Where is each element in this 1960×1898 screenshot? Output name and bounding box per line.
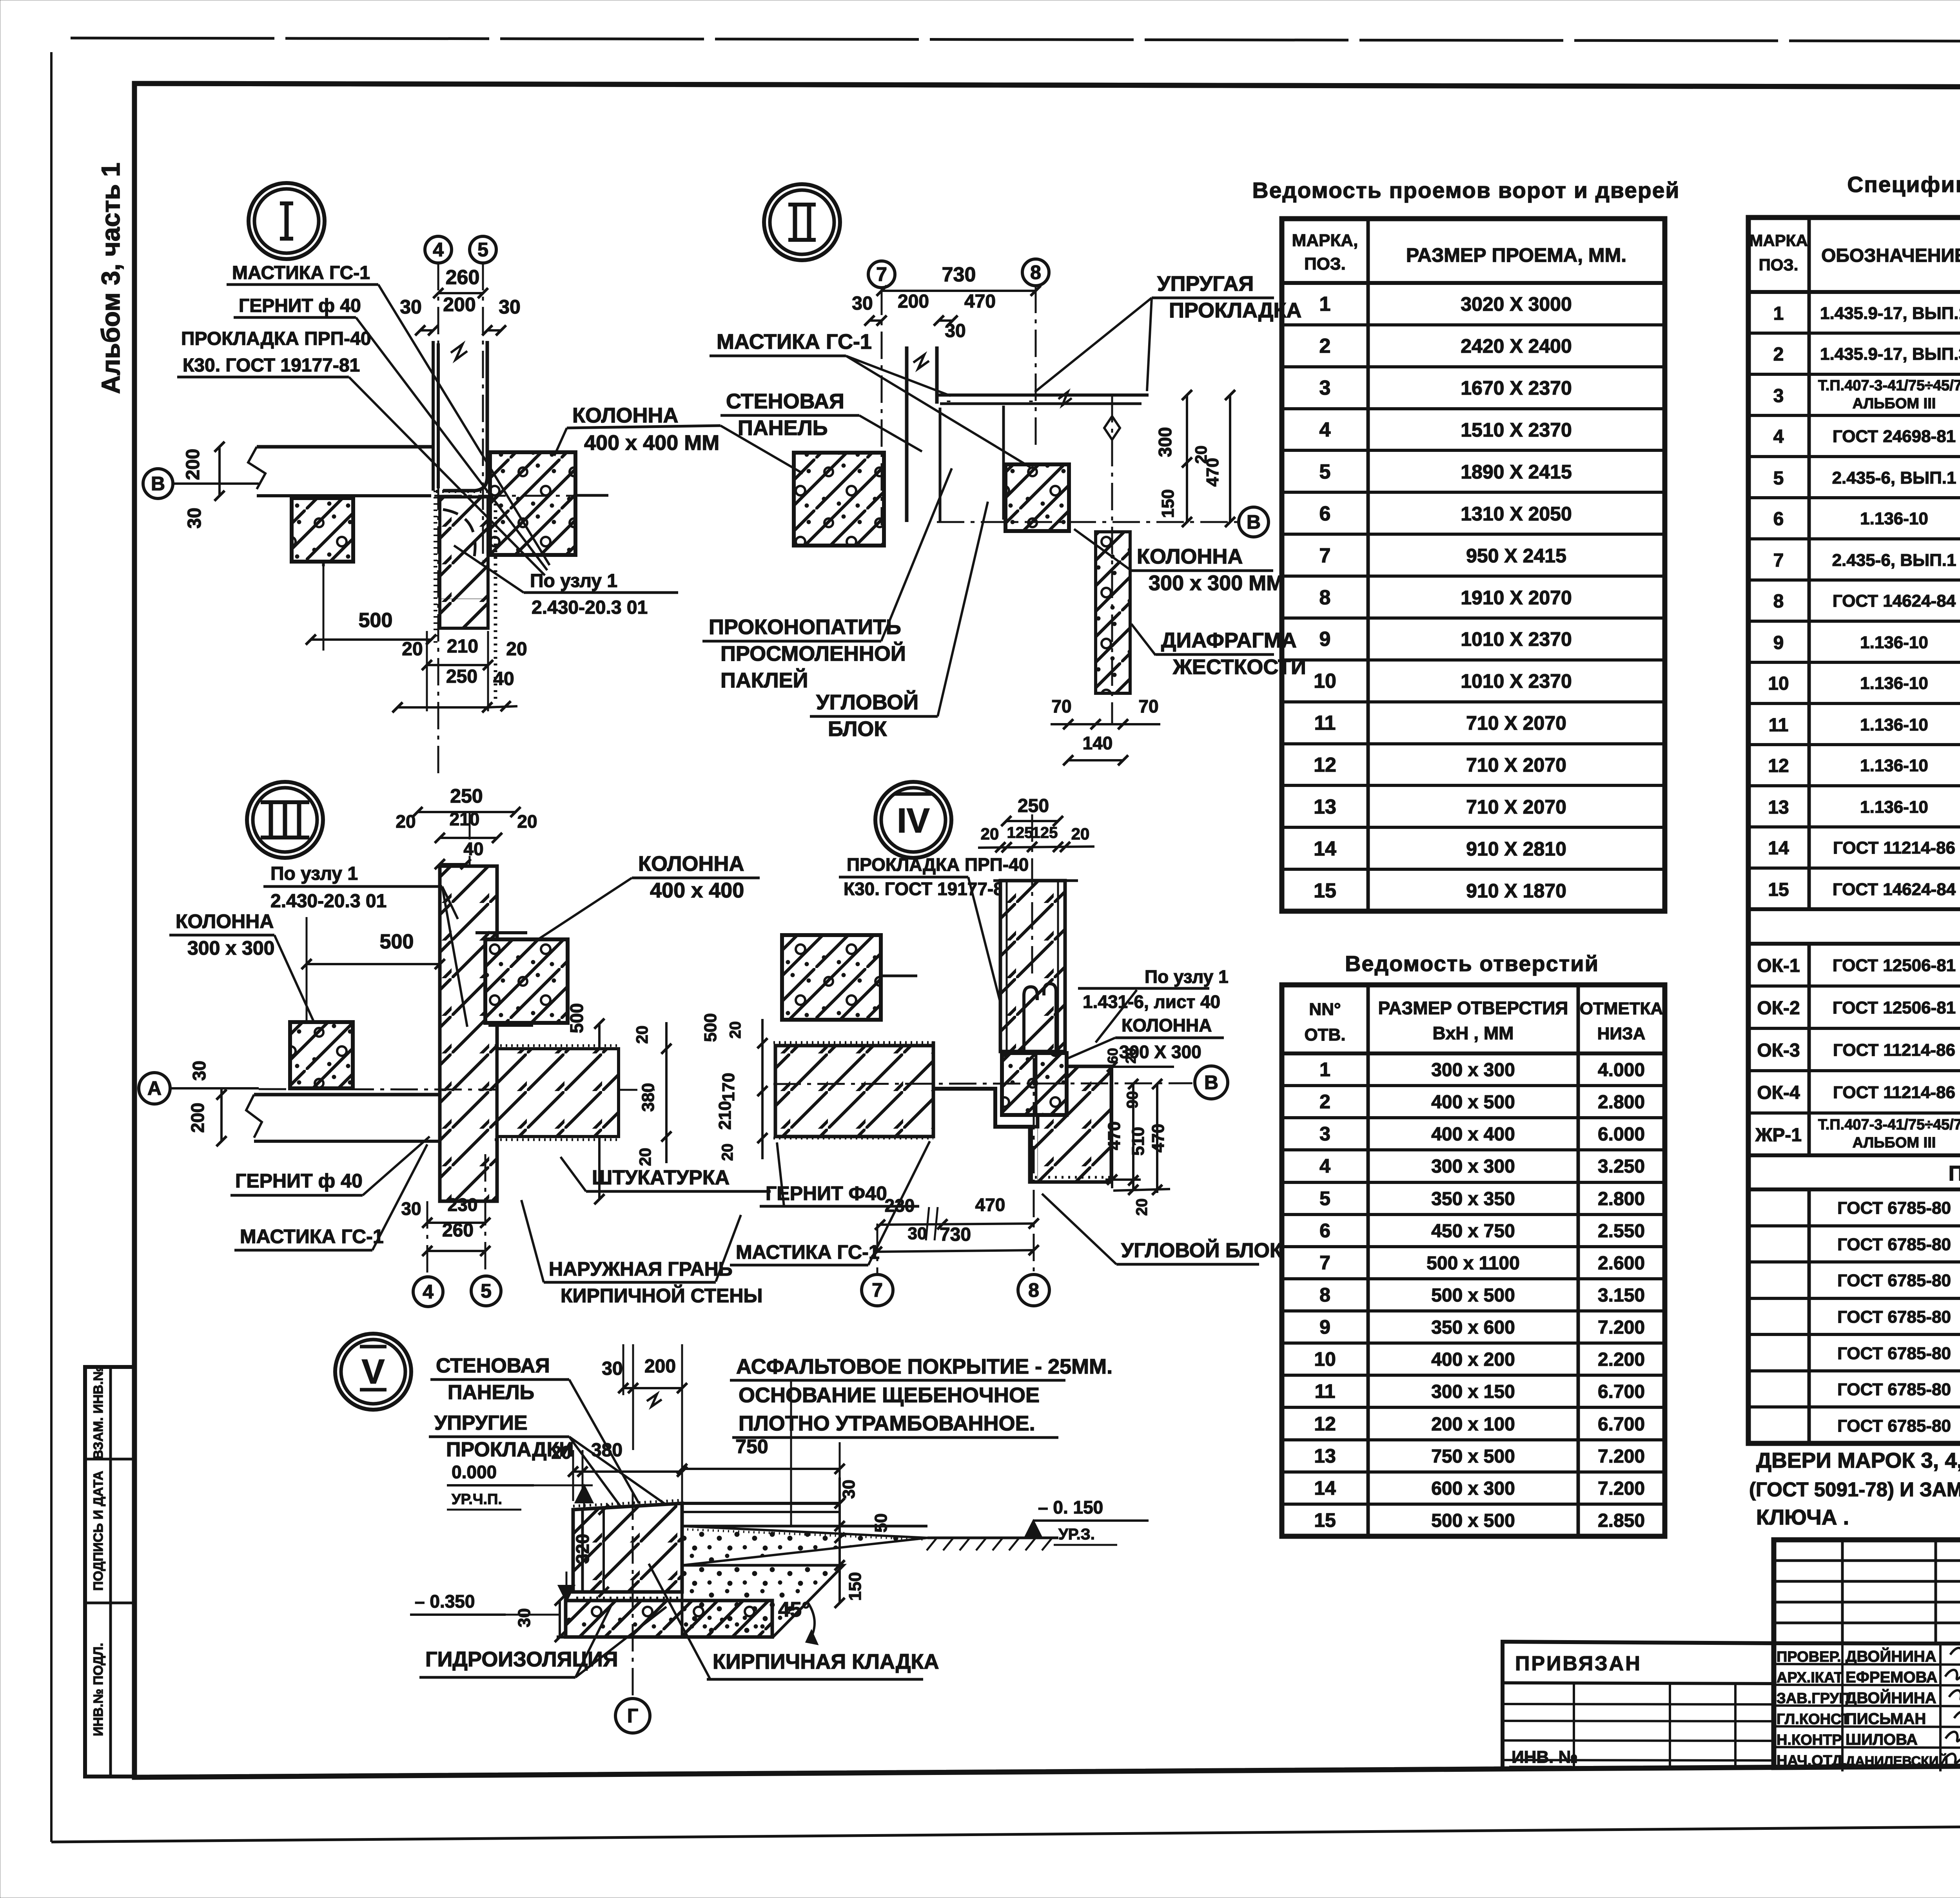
svg-text:20: 20 [402,639,423,660]
svg-text:13: 13 [1314,796,1336,818]
svg-text:15: 15 [1768,879,1789,900]
svg-text:210: 210 [447,636,478,657]
detail V circle [335,1334,411,1410]
svg-text:ЖЕСТКОСТИ: ЖЕСТКОСТИ [1172,655,1306,679]
svg-text:ПАНЕЛЬ: ПАНЕЛЬ [738,416,828,440]
svg-text:НИЗА: НИЗА [1597,1024,1646,1043]
svg-text:ГОСТ 11214-86: ГОСТ 11214-86 [1833,1041,1955,1060]
detail IV anchor hooks [1024,987,1037,1050]
svg-text:ПРОКЛАДКА ПРП-40: ПРОКЛАДКА ПРП-40 [181,328,371,349]
svg-text:2.550: 2.550 [1598,1221,1645,1242]
svg-text:0.000: 0.000 [452,1462,497,1482]
svg-text:30: 30 [602,1358,622,1379]
svg-text:6: 6 [1773,509,1784,529]
svg-text:2.800: 2.800 [1598,1189,1645,1209]
svg-text:9: 9 [1319,1316,1330,1338]
svg-text:5: 5 [477,239,488,261]
svg-text:3020 X 3000: 3020 X 3000 [1461,293,1572,315]
svg-text:30: 30 [189,1060,209,1080]
svg-text:По узлу 1: По узлу 1 [270,863,358,884]
svg-text:250: 250 [1018,796,1049,816]
svg-text:ОБОЗНАЧЕНИЕ: ОБОЗНАЧЕНИЕ [1821,245,1960,266]
svg-text:210: 210 [450,809,480,829]
svg-text:ГОСТ 11214-86: ГОСТ 11214-86 [1833,1083,1955,1102]
svg-text:1.435.9-17, ВЫП.1: 1.435.9-17, ВЫП.1 [1820,304,1960,323]
svg-text:20: 20 [981,825,999,843]
svg-text:ЖР-1: ЖР-1 [1755,1125,1802,1146]
svg-text:3.150: 3.150 [1598,1285,1645,1306]
svg-text:200: 200 [187,1103,208,1133]
svg-text:13: 13 [1314,1445,1336,1467]
detail V apron [682,1565,844,1637]
svg-text:6: 6 [1319,502,1331,525]
svg-text:11: 11 [1314,712,1336,734]
svg-text:40: 40 [493,669,514,689]
svg-text:ПОДПИСЬ И ДАТА: ПОДПИСЬ И ДАТА [91,1471,106,1591]
detail III central brick wall [440,866,497,1201]
svg-text:60: 60 [1105,1048,1121,1064]
svg-text:В: В [1204,1071,1218,1093]
svg-text:5: 5 [1319,460,1331,483]
svg-text:250: 250 [450,785,483,807]
svg-text:1670 X 2370: 1670 X 2370 [1461,377,1572,399]
svg-text:В: В [151,473,165,495]
svg-text:500: 500 [566,1003,587,1033]
svg-text:УПРУГИЕ: УПРУГИЕ [434,1412,528,1434]
svg-text:20: 20 [396,811,416,832]
svg-text:230: 230 [448,1195,478,1215]
svg-text:МАРКА,: МАРКА, [1292,231,1358,250]
svg-text:11: 11 [1315,1380,1336,1402]
svg-text:400 х 400: 400 х 400 [650,879,744,902]
detail I wall panel [432,341,435,491]
svg-text:УР.Ч.П.: УР.Ч.П. [452,1491,502,1508]
svg-text:ГОСТ 14624-84: ГОСТ 14624-84 [1833,880,1956,899]
signatures [1950,1648,1960,1657]
svg-text:ВЗАМ. ИНВ.№: ВЗАМ. ИНВ.№ [91,1366,106,1459]
svg-text:510: 510 [1129,1127,1148,1155]
svg-text:ПАНЕЛЬ: ПАНЕЛЬ [448,1381,534,1404]
svg-text:6.700: 6.700 [1598,1414,1645,1435]
svg-text:1310 X 2050: 1310 X 2050 [1461,503,1572,525]
svg-text:8: 8 [1319,586,1331,609]
svg-text:По узлу 1: По узлу 1 [1145,966,1229,987]
svg-text:20: 20 [633,1026,651,1044]
svg-text:125: 125 [1032,824,1058,841]
svg-text:3: 3 [1773,386,1784,406]
svg-text:2.435-6, ВЫП.1: 2.435-6, ВЫП.1 [1832,551,1956,570]
svg-text:1.136-10: 1.136-10 [1860,674,1928,693]
title block outer box [1774,1540,1960,1767]
svg-text:7: 7 [1319,1252,1330,1274]
svg-text:500: 500 [359,609,393,632]
bottom-left auxiliary strip table [85,1367,134,1777]
svg-text:ОСНОВАНИЕ ЩЕБЕНОЧНОЕ: ОСНОВАНИЕ ЩЕБЕНОЧНОЕ [739,1383,1040,1407]
svg-text:750 x 500: 750 x 500 [1431,1446,1515,1467]
svg-text:12: 12 [1314,754,1336,776]
svg-text:IV: IV [897,801,929,840]
svg-text:АРХ.IКАТ: АРХ.IКАТ [1777,1670,1843,1686]
detail II axis circle 8 [1022,259,1049,286]
svg-text:13: 13 [1768,797,1789,818]
svg-text:2420 X 2400: 2420 X 2400 [1461,335,1572,357]
svg-text:10: 10 [1314,670,1336,692]
svg-text:70: 70 [1138,696,1158,716]
svg-text:МАСТИКА ГС-1: МАСТИКА ГС-1 [736,1241,880,1263]
svg-text:ИНВ. №: ИНВ. № [1512,1748,1578,1767]
svg-text:ДВОЙНИНА: ДВОЙНИНА [1846,1647,1936,1665]
svg-text:К30. ГОСТ 19177-81: К30. ГОСТ 19177-81 [183,355,360,376]
svg-text:БЛОК: БЛОК [828,717,887,741]
svg-text:170: 170 [719,1073,738,1101]
svg-text:РАЗМЕР ПРОЕМА, ММ.: РАЗМЕР ПРОЕМА, ММ. [1406,244,1626,266]
svg-text:Ведомость отверстий: Ведомость отверстий [1345,951,1599,976]
svg-text:400 х 400 ММ: 400 х 400 ММ [584,431,719,455]
svg-text:УР.З.: УР.З. [1058,1526,1095,1543]
svg-text:20: 20 [506,639,527,660]
svg-text:150: 150 [1158,489,1178,518]
svg-text:300 x 300: 300 x 300 [1431,1156,1515,1177]
svg-text:ОК-1: ОК-1 [1757,955,1800,976]
svg-text:МАСТИКА ГС-1: МАСТИКА ГС-1 [232,263,370,283]
svg-text:500: 500 [701,1013,720,1042]
svg-text:20: 20 [517,811,537,832]
svg-text:А: А [147,1077,162,1099]
svg-text:730: 730 [940,1224,971,1245]
detail I column 400x400 [490,452,575,555]
svg-text:7: 7 [872,1279,883,1301]
detail II wall panel [905,346,909,522]
svg-text:15: 15 [1314,1509,1336,1531]
svg-text:2: 2 [1319,335,1331,357]
detail I axis B circle [143,469,173,499]
detail V floor lines [682,1502,840,1505]
svg-text:Альбом 3, часть 1: Альбом 3, часть 1 [96,163,125,394]
top strip line [134,83,1960,88]
svg-text:400 x 400: 400 x 400 [1431,1124,1515,1145]
svg-text:30: 30 [401,1198,421,1219]
svg-text:600 x 300: 600 x 300 [1431,1478,1515,1499]
svg-text:20: 20 [1133,1198,1151,1216]
svg-text:125: 125 [1007,824,1033,841]
svg-text:10: 10 [1768,673,1789,694]
svg-text:470: 470 [1105,1121,1124,1150]
svg-text:1010 X 2370: 1010 X 2370 [1461,628,1572,650]
svg-text:КОЛОННА: КОЛОННА [572,404,679,427]
svg-text:АЛЬБОМ III: АЛЬБОМ III [1853,1135,1936,1151]
svg-text:400 x 200: 400 x 200 [1431,1349,1515,1370]
svg-text:АСФАЛЬТОВОЕ ПОКРЫТИЕ - 25ММ.: АСФАЛЬТОВОЕ ПОКРЫТИЕ - 25ММ. [736,1355,1112,1378]
svg-text:АЛЬБОМ III: АЛЬБОМ III [1853,395,1936,412]
svg-text:1.136-10: 1.136-10 [1860,509,1928,528]
detail II axis line B [937,521,1239,523]
svg-text:КОЛОННА: КОЛОННА [1137,545,1243,568]
svg-text:1910 X 2070: 1910 X 2070 [1461,587,1572,609]
svg-text:Т.П.407-3-41/75÷45/75: Т.П.407-3-41/75÷45/75 [1818,377,1960,394]
svg-text:500 x 1100: 500 x 1100 [1426,1253,1520,1274]
svg-text:ОК-4: ОК-4 [1757,1082,1800,1103]
svg-text:30: 30 [945,321,965,341]
svg-text:4: 4 [1319,1155,1330,1177]
svg-text:10: 10 [1314,1348,1336,1370]
detail IV axis B [773,1083,1192,1084]
svg-text:1.136-10: 1.136-10 [1860,798,1928,817]
svg-text:12: 12 [1768,756,1789,776]
svg-text:350 x 350: 350 x 350 [1431,1189,1515,1209]
svg-text:1.431-6, лист 40: 1.431-6, лист 40 [1083,992,1220,1012]
svg-text:ШИЛОВА: ШИЛОВА [1846,1731,1918,1748]
svg-text:20: 20 [727,1021,744,1039]
svg-text:200: 200 [443,294,475,315]
svg-text:ГОСТ 6785-80: ГОСТ 6785-80 [1837,1307,1951,1327]
svg-text:ПРИВЯЗАН: ПРИВЯЗАН [1515,1652,1642,1675]
detail II column 300x300 [1005,464,1069,531]
svg-text:70: 70 [1051,696,1071,716]
svg-text:Спецификация элементов за: Спецификация элементов заполнения проемо… [1847,172,1960,197]
detail III axis A [139,1073,170,1104]
svg-text:КИРПИЧНАЯ КЛАДКА: КИРПИЧНАЯ КЛАДКА [713,1650,939,1673]
svg-text:ГОСТ 6785-80: ГОСТ 6785-80 [1837,1198,1951,1218]
svg-text:200: 200 [898,291,929,312]
detail I axis lines [437,263,439,776]
svg-text:ШТУКАТУРКА: ШТУКАТУРКА [592,1166,730,1189]
svg-text:1510 X 2370: 1510 X 2370 [1461,419,1572,441]
svg-text:В: В [1247,511,1261,533]
svg-text:20: 20 [636,1148,654,1166]
detail V asphalt wedge [682,1526,927,1565]
svg-text:2.800: 2.800 [1598,1092,1645,1113]
detail IV wall panel [1000,881,1065,1051]
svg-text:910 X 1870: 910 X 1870 [1466,880,1566,902]
svg-text:ОК-3: ОК-3 [1757,1040,1800,1061]
svg-text:ДВОЙНИНА: ДВОЙНИНА [1846,1689,1936,1707]
svg-text:ЕФРЕМОВА: ЕФРЕМОВА [1846,1669,1937,1686]
svg-text:7: 7 [1319,544,1331,567]
detail III small column 300x300 [290,1022,353,1088]
svg-text:470: 470 [1203,458,1222,486]
detail III axis circles 4 5 [426,1201,428,1276]
svg-text:Г: Г [627,1705,638,1727]
svg-text:4: 4 [1319,419,1331,441]
svg-text:ПРОСМОЛЕННОЙ: ПРОСМОЛЕННОЙ [720,642,906,665]
svg-text:ПИСЬМАН: ПИСЬМАН [1846,1710,1926,1728]
svg-text:1: 1 [1319,1059,1330,1080]
detail II corner block edge [1002,406,1005,520]
svg-text:14: 14 [1314,1477,1336,1499]
svg-text:5: 5 [1773,468,1784,489]
svg-text:ЗАВ.ГРУП: ЗАВ.ГРУП [1777,1690,1850,1707]
detail I gasket dots on joint [434,491,437,643]
svg-text:12: 12 [1314,1413,1336,1435]
detail I slab left of panel [257,445,433,449]
svg-text:300 x 150: 300 x 150 [1431,1381,1515,1402]
svg-text:2.200: 2.200 [1598,1349,1645,1370]
svg-text:710 X 2070: 710 X 2070 [1466,796,1566,818]
svg-text:ГОСТ 12506-81: ГОСТ 12506-81 [1833,956,1956,975]
section band ОКНА [1748,907,1960,911]
svg-text:ВxН , ММ: ВxН , ММ [1433,1023,1514,1043]
svg-text:30: 30 [184,508,205,528]
svg-text:NN°: NN° [1309,1000,1341,1019]
detail I axis circle 5 [470,236,496,263]
svg-text:300 х 300: 300 х 300 [187,937,274,959]
svg-text:20: 20 [551,1442,571,1463]
svg-text:Т.П.407-3-41/75÷45/75: Т.П.407-3-41/75÷45/75 [1818,1117,1960,1133]
title block top-left grid [1774,1643,1960,1644]
detail IV brick slab [775,1046,933,1137]
detail IV column 400x400 [782,935,881,1020]
svg-text:КОЛОННА: КОЛОННА [638,852,744,876]
svg-text:1.136-10: 1.136-10 [1860,633,1928,652]
svg-text:1010 X 2370: 1010 X 2370 [1461,670,1572,692]
svg-text:СТЕНОВАЯ: СТЕНОВАЯ [726,390,844,413]
svg-text:260: 260 [446,266,480,289]
detail V gasket under panel [576,1597,682,1600]
svg-text:ПАКЛЕЙ: ПАКЛЕЙ [720,668,808,692]
svg-text:50: 50 [871,1514,891,1533]
svg-text:К30. ГОСТ 19177-81: К30. ГОСТ 19177-81 [844,879,1013,899]
svg-text:ПОЗ.: ПОЗ. [1304,254,1346,274]
svg-text:500: 500 [380,930,414,953]
svg-text:ОК-2: ОК-2 [1757,998,1800,1019]
svg-text:140: 140 [1083,733,1113,753]
svg-text:260: 260 [442,1220,474,1241]
svg-text:2: 2 [1773,344,1784,365]
svg-text:2.600: 2.600 [1598,1253,1645,1274]
svg-text:320: 320 [572,1534,593,1564]
svg-text:МАСТИКА ГС-1: МАСТИКА ГС-1 [717,330,872,353]
svg-text:9: 9 [1773,633,1784,653]
svg-text:4: 4 [423,1281,434,1303]
svg-text:ПРОКОНОПАТИТЬ: ПРОКОНОПАТИТЬ [709,615,901,639]
detail V ground line [927,1537,1058,1539]
svg-text:КИРПИЧНОЙ СТЕНЫ: КИРПИЧНОЙ СТЕНЫ [561,1284,762,1307]
svg-text:– 0.350: – 0.350 [415,1591,475,1612]
svg-text:МАРКА: МАРКА [1749,231,1808,250]
svg-text:1.136-10: 1.136-10 [1860,756,1928,775]
svg-text:НАРУЖНАЯ ГРАНЬ: НАРУЖНАЯ ГРАНЬ [549,1258,733,1280]
svg-text:РАЗМЕР ОТВЕРСТИЯ: РАЗМЕР ОТВЕРСТИЯ [1378,998,1568,1018]
svg-text:8: 8 [1319,1284,1330,1306]
detail I masonry wall below [440,497,488,628]
svg-text:500 x 500: 500 x 500 [1431,1285,1515,1306]
svg-text:30: 30 [852,293,873,314]
svg-text:2.430-20.3 01: 2.430-20.3 01 [270,891,387,912]
svg-text:ГОСТ 6785-80: ГОСТ 6785-80 [1837,1344,1951,1363]
svg-text:20: 20 [1123,1048,1139,1064]
svg-text:30: 30 [499,296,521,318]
svg-text:3: 3 [1319,1123,1330,1145]
svg-text:470: 470 [964,291,996,312]
svg-text:730: 730 [942,263,976,286]
svg-text:15: 15 [1314,879,1336,902]
svg-text:V: V [362,1352,385,1391]
section band Подоконные доски [1748,1153,1960,1157]
svg-text:40: 40 [463,839,483,859]
svg-text:380: 380 [591,1440,622,1461]
svg-text:КОЛОННА: КОЛОННА [1122,1015,1212,1035]
detail V foundation [566,1601,772,1637]
svg-text:ДИАФРАГМА: ДИАФРАГМА [1161,629,1297,652]
svg-text:7: 7 [876,263,887,285]
svg-text:УПРУГАЯ: УПРУГАЯ [1157,272,1254,295]
detail IV corner brick block [1038,1066,1111,1182]
svg-text:30: 30 [515,1608,534,1628]
svg-text:ОТМЕТКА: ОТМЕТКА [1580,999,1663,1018]
detail II circle [764,184,840,260]
svg-text:710 X 2070: 710 X 2070 [1466,754,1566,776]
svg-text:450 x 750: 450 x 750 [1431,1221,1515,1242]
svg-text:ГЛ.КОНСТ: ГЛ.КОНСТ [1777,1711,1850,1728]
svg-text:300 х 300 ММ: 300 х 300 ММ [1149,571,1284,595]
svg-text:7.200: 7.200 [1598,1317,1645,1338]
svg-text:45°: 45° [778,1598,810,1621]
svg-text:8: 8 [1030,261,1041,283]
svg-text:УГЛОВОЙ БЛОК: УГЛОВОЙ БЛОК [1121,1239,1282,1262]
svg-text:ГОСТ 6785-80: ГОСТ 6785-80 [1837,1235,1951,1254]
svg-text:30: 30 [839,1480,858,1499]
svg-text:950 X 2415: 950 X 2415 [1466,545,1566,567]
detail V axis Г [632,1492,634,1698]
svg-text:30: 30 [908,1224,927,1243]
svg-text:4: 4 [1773,426,1784,447]
svg-text:11: 11 [1769,715,1789,736]
svg-text:ИНВ.№ ПОДЛ.: ИНВ.№ ПОДЛ. [91,1643,106,1736]
svg-text:ГЕРНИТ ф 40: ГЕРНИТ ф 40 [235,1170,363,1192]
detail I circle [249,183,325,259]
svg-text:30: 30 [400,296,422,318]
svg-text:200: 200 [644,1356,676,1377]
svg-text:8: 8 [1028,1279,1039,1301]
svg-text:7.200: 7.200 [1598,1446,1645,1467]
svg-text:УГЛОВОЙ: УГЛОВОЙ [816,690,918,714]
svg-text:8: 8 [1773,591,1784,612]
svg-text:250: 250 [446,666,477,687]
svg-text:3.250: 3.250 [1598,1156,1645,1177]
svg-text:5: 5 [1319,1187,1330,1209]
svg-text:380: 380 [639,1083,658,1111]
svg-text:500 x 500: 500 x 500 [1431,1510,1515,1531]
привязан box [1503,1642,1774,1769]
svg-text:1: 1 [1773,303,1784,324]
svg-text:Ведомость проемов ворот и: Ведомость проемов ворот и дверей [1252,178,1680,203]
svg-text:400 x 500: 400 x 500 [1431,1092,1515,1113]
svg-text:300 x 300: 300 x 300 [1431,1060,1515,1080]
svg-text:ДАНИЛЕВСКИЙ: ДАНИЛЕВСКИЙ [1846,1753,1948,1769]
svg-text:7: 7 [1773,550,1784,571]
svg-text:Подоконные доски: Подоконные доски [1949,1162,1960,1185]
svg-text:6.700: 6.700 [1598,1381,1645,1402]
svg-text:ПОЗ.: ПОЗ. [1759,256,1798,274]
svg-text:(ГОСТ 5091-78) И ЗАМКОМ ЗН1А: (ГОСТ 5091-78) И ЗАМКОМ ЗН1А (ГОСТ 5089-… [1749,1478,1960,1501]
svg-text:1.435.9-17, ВЫП.3: 1.435.9-17, ВЫП.3 [1820,344,1960,364]
svg-text:7.200: 7.200 [1598,1478,1645,1499]
svg-text:14: 14 [1314,838,1336,860]
svg-text:ПЛОТНО УТРАМБОВАННОЕ.: ПЛОТНО УТРАМБОВАННОЕ. [739,1412,1035,1435]
svg-text:КОЛОННА: КОЛОННА [176,910,274,932]
svg-text:910 X 2810: 910 X 2810 [1466,838,1566,860]
svg-text:470: 470 [975,1195,1005,1215]
svg-text:НАЧ.ОТД.: НАЧ.ОТД. [1777,1753,1847,1769]
svg-text:ГОСТ 6785-80: ГОСТ 6785-80 [1837,1380,1951,1399]
svg-text:710 X 2070: 710 X 2070 [1466,712,1566,734]
svg-text:6.000: 6.000 [1598,1124,1645,1145]
svg-text:ГЕРНИТ ф 40: ГЕРНИТ ф 40 [239,295,361,316]
detail II диафрагма [1096,532,1130,693]
detail IV axis circles 7 8 [877,1224,878,1274]
svg-text:350 x 600: 350 x 600 [1431,1317,1515,1338]
svg-text:ГОСТ 12506-81: ГОСТ 12506-81 [1833,998,1956,1017]
